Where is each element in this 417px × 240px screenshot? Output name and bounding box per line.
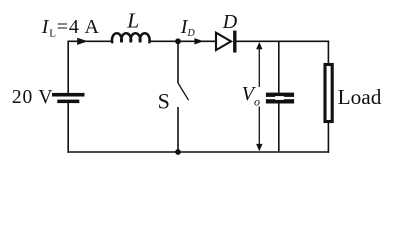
inductor L coil <box>112 33 150 42</box>
Vo measure arrow line upper <box>258 46 260 87</box>
svg-text:L: L <box>126 9 139 33</box>
wire right rail upper <box>327 41 329 65</box>
battery source 20V: short plate <box>57 100 79 104</box>
node dot: bottom junction of switch <box>175 149 181 155</box>
capacitor bottom plate <box>266 99 294 103</box>
wire right rail lower <box>327 123 329 153</box>
wire top right segment <box>236 40 329 42</box>
svg-text:D: D <box>222 11 238 33</box>
svg-text:Load: Load <box>338 85 382 109</box>
wire top middle segment <box>150 40 216 42</box>
battery source 20V: long plate <box>52 93 85 97</box>
load resistor box <box>325 65 332 122</box>
diode D triangle <box>216 33 231 50</box>
capacitor center notch <box>275 96 284 100</box>
capacitor top plate <box>266 93 294 97</box>
wire left rail upper <box>67 41 69 94</box>
diode D cathode bar <box>233 31 236 53</box>
svg-text:S: S <box>158 89 170 114</box>
Vo arrowhead down <box>256 144 262 151</box>
node dot: junction of L, switch, diode <box>175 38 181 44</box>
current arrow IL on top-left wire <box>77 38 88 45</box>
wire top left segment <box>68 40 112 42</box>
wire capacitor branch upper <box>278 41 280 92</box>
wire switch branch upper <box>177 41 179 83</box>
wire capacitor branch lower <box>278 103 280 152</box>
current arrow ID after junction <box>194 38 203 44</box>
Vo measure arrow line lower <box>258 107 260 148</box>
wire switch branch lower <box>177 107 179 152</box>
wire left rail lower <box>67 103 69 153</box>
switch S blade <box>178 83 189 100</box>
svg-text:20 V: 20 V <box>12 87 53 108</box>
Vo arrowhead up <box>256 42 262 49</box>
wire bottom rail <box>67 151 329 153</box>
